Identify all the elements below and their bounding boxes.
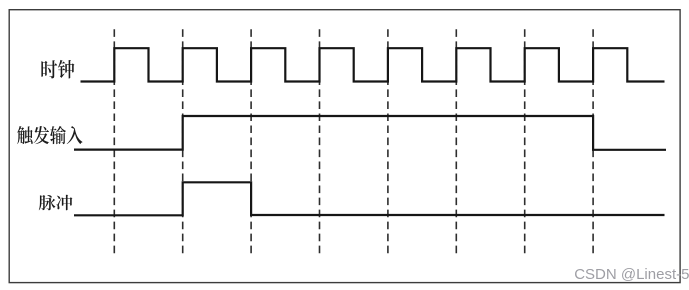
timing dashed line 2 [182,29,184,253]
label 脉冲 (pulse) [39,195,73,210]
timing dashed line 5 [387,29,389,253]
label 触发输入 (trigger input) [17,126,82,144]
clock waveform [81,48,665,81]
watermark CSDN @Linest-5 [574,266,689,283]
timing dashed line 7 [524,29,526,253]
timing dashed line 3 [250,29,252,253]
svg-text:CSDN @Linest-5: CSDN @Linest-5 [574,266,689,283]
timing dashed line 8 [592,29,594,253]
pulse waveform [74,182,665,215]
label 时钟 (clock) [41,60,74,79]
timing dashed line 6 [455,29,457,253]
trigger input waveform [74,116,666,150]
timing dashed line 1 [113,29,115,253]
timing dashed line 4 [319,29,321,253]
